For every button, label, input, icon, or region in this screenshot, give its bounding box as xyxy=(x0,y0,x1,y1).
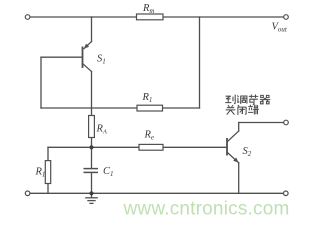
junction node at ground xyxy=(89,191,93,195)
wire S1 collector vertical xyxy=(91,72,93,116)
svg-text:S1: S1 xyxy=(97,54,106,66)
svg-text:S2: S2 xyxy=(243,146,252,158)
wire left R1 branch upper xyxy=(47,147,49,160)
resistor R1 (feedback) xyxy=(137,105,163,111)
resistor R1 (lower left) xyxy=(45,161,50,184)
wire C1 upper lead xyxy=(91,147,93,168)
ground xyxy=(85,193,98,203)
char 节 xyxy=(249,95,258,105)
junction node at C1 top xyxy=(89,145,93,149)
svg-text:Rm: Rm xyxy=(142,3,154,15)
char 关 xyxy=(226,105,235,114)
transistor S1 base bar xyxy=(82,47,84,69)
wire mid rail through R1 xyxy=(41,107,200,109)
wire S2 collector diagonal xyxy=(228,131,239,141)
char 调 xyxy=(238,96,247,104)
svg-text:www.cntronics.com: www.cntronics.com xyxy=(123,199,290,220)
transistor S2 emitter arrow (NPN) xyxy=(233,158,238,163)
terminal Vout top-right xyxy=(284,15,289,20)
wire bottom rail xyxy=(30,192,284,194)
char 闭 xyxy=(238,105,246,114)
terminal regulator shutdown xyxy=(284,120,289,125)
svg-text:C1: C1 xyxy=(103,166,114,178)
char 器 xyxy=(260,95,270,103)
wire top rail xyxy=(30,16,284,18)
transistor S2 base bar xyxy=(226,138,228,156)
wire S2 emitter diagonal xyxy=(228,153,239,163)
terminal input top-left xyxy=(25,15,30,20)
resistor RA xyxy=(89,116,95,138)
terminal bottom-left xyxy=(25,191,30,196)
annotation: Chinese text line 2 (关闭端) xyxy=(226,105,258,114)
wire left loop vertical xyxy=(40,57,42,108)
wire S2 emitter vertical xyxy=(238,163,240,194)
wire S2 collector vertical xyxy=(238,123,240,132)
wire S1 collector diagonal xyxy=(83,64,92,72)
wire left R1 branch lower xyxy=(47,184,49,194)
svg-text:Re: Re xyxy=(144,130,155,142)
capacitor C1 xyxy=(84,169,99,173)
char 到 xyxy=(226,95,236,104)
svg-text:R1: R1 xyxy=(142,92,153,104)
resistor Re xyxy=(139,144,163,150)
transistor S1 emitter arrow (PNP) xyxy=(84,44,89,49)
wire right drop from top rail to R1 xyxy=(199,17,201,108)
wire S1 emitter drop from top rail xyxy=(91,17,93,42)
wire C1 lower lead xyxy=(91,173,93,194)
wire sense rail to S2 base xyxy=(48,146,226,148)
svg-text:Vout: Vout xyxy=(272,22,288,34)
svg-text:R1: R1 xyxy=(35,167,46,179)
wire RA to sense rail xyxy=(91,138,93,148)
wire S1 emitter diagonal xyxy=(84,42,92,49)
resistor Rm xyxy=(137,14,164,20)
wire S2 collector to terminal xyxy=(239,122,284,124)
char 端 xyxy=(249,105,259,114)
annotation: Chinese text line 1 (到调节器) xyxy=(226,95,270,105)
wire S1 base xyxy=(41,56,83,58)
terminal bottom-right xyxy=(284,191,289,196)
svg-text:RA: RA xyxy=(96,124,107,136)
